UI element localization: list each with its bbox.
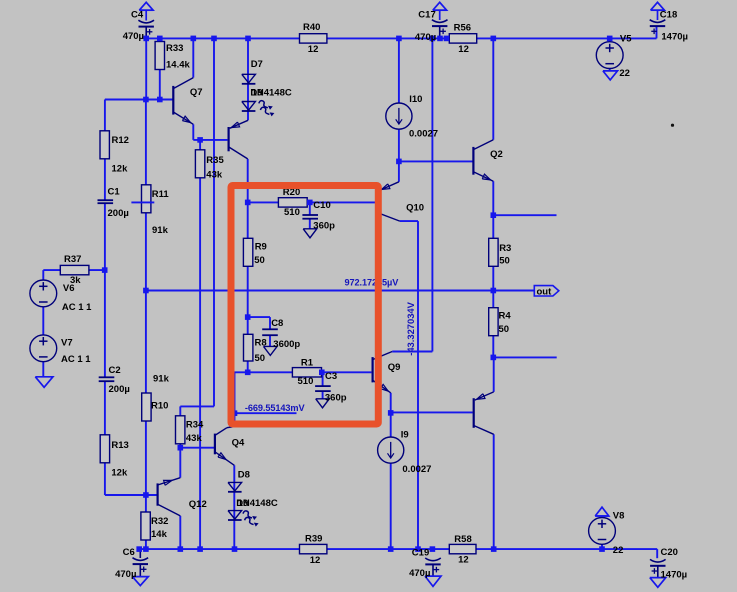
svg-text:50: 50 — [499, 256, 510, 267]
svg-text:1470µ: 1470µ — [661, 570, 688, 581]
svg-text:Q2: Q2 — [490, 149, 503, 160]
svg-text:R9: R9 — [255, 242, 267, 253]
svg-text:22: 22 — [613, 545, 624, 556]
svg-text:C2: C2 — [109, 365, 121, 376]
svg-text:D7: D7 — [251, 59, 263, 70]
svg-text:C17: C17 — [418, 10, 435, 21]
svg-text:C8: C8 — [271, 318, 283, 329]
svg-text:510: 510 — [284, 207, 300, 218]
svg-text:R10: R10 — [151, 401, 168, 412]
svg-text:12: 12 — [458, 44, 469, 55]
svg-text:I10: I10 — [409, 94, 422, 105]
svg-text:510: 510 — [298, 376, 314, 387]
svg-text:AC 1 1: AC 1 1 — [61, 354, 91, 365]
svg-text:-43.327034V: -43.327034V — [405, 301, 416, 355]
svg-text:C20: C20 — [661, 547, 678, 558]
svg-text:V5: V5 — [620, 33, 632, 44]
svg-text:Q10: Q10 — [406, 203, 424, 214]
svg-text:360p: 360p — [313, 220, 335, 231]
svg-text:12: 12 — [308, 44, 319, 55]
svg-text:50: 50 — [254, 255, 265, 266]
svg-text:I9: I9 — [401, 430, 409, 441]
svg-text:R12: R12 — [112, 135, 129, 146]
svg-text:91k: 91k — [153, 374, 170, 385]
svg-text:470µ: 470µ — [409, 568, 430, 579]
svg-text:360p: 360p — [325, 392, 347, 403]
svg-text:R40: R40 — [303, 22, 320, 33]
svg-text:-669.55143mV: -669.55143mV — [245, 403, 306, 413]
svg-text:22: 22 — [619, 68, 630, 79]
svg-text:C19: C19 — [412, 548, 429, 559]
svg-text:D9: D9 — [236, 498, 248, 509]
svg-text:out: out — [537, 286, 553, 297]
svg-text:470µ: 470µ — [415, 32, 436, 43]
svg-text:R56: R56 — [454, 23, 471, 34]
svg-text:R37: R37 — [64, 254, 81, 265]
svg-text:V7: V7 — [61, 338, 73, 349]
svg-text:R58: R58 — [454, 534, 471, 545]
svg-text:12k: 12k — [111, 468, 128, 479]
svg-text:R35: R35 — [206, 155, 224, 166]
svg-text:V6: V6 — [63, 283, 75, 294]
svg-text:R1: R1 — [301, 357, 314, 368]
svg-text:43k: 43k — [206, 170, 223, 181]
svg-text:470µ: 470µ — [115, 569, 136, 580]
svg-text:972.17245µV: 972.17245µV — [345, 277, 400, 287]
svg-text:200µ: 200µ — [109, 384, 130, 395]
svg-text:3600p: 3600p — [273, 339, 300, 350]
svg-text:C4: C4 — [131, 10, 144, 21]
svg-text:R39: R39 — [305, 533, 322, 544]
svg-text:Q7: Q7 — [190, 87, 203, 98]
svg-text:R13: R13 — [111, 440, 128, 451]
svg-text:14k: 14k — [151, 529, 168, 540]
svg-text:Q4: Q4 — [232, 438, 245, 449]
svg-text:50: 50 — [499, 324, 510, 335]
svg-text:V8: V8 — [613, 510, 625, 521]
svg-text:C3: C3 — [325, 371, 337, 382]
svg-text:14.4k: 14.4k — [166, 60, 190, 71]
svg-text:R3: R3 — [499, 243, 511, 254]
svg-text:50: 50 — [255, 353, 266, 364]
svg-text:C6: C6 — [123, 547, 135, 558]
svg-text:R32: R32 — [151, 516, 168, 527]
svg-text:R11: R11 — [152, 189, 170, 200]
svg-text:12: 12 — [310, 555, 321, 566]
svg-text:R8: R8 — [255, 337, 267, 348]
svg-text:R33: R33 — [166, 43, 183, 54]
svg-text:D9: D9 — [250, 88, 262, 99]
svg-text:C1: C1 — [108, 186, 121, 197]
svg-text:0.0027: 0.0027 — [402, 464, 431, 475]
svg-text:R34: R34 — [186, 419, 204, 430]
svg-text:C18: C18 — [660, 10, 677, 21]
svg-text:R4: R4 — [499, 311, 512, 322]
svg-text:D8: D8 — [238, 469, 250, 480]
svg-text:AC 1 1: AC 1 1 — [62, 302, 92, 313]
svg-text:43k: 43k — [186, 433, 203, 444]
svg-text:470µ: 470µ — [123, 31, 144, 42]
svg-text:C10: C10 — [313, 200, 330, 211]
svg-text:12: 12 — [458, 555, 469, 566]
svg-text:Q9: Q9 — [388, 362, 401, 373]
svg-text:200µ: 200µ — [108, 208, 129, 219]
svg-text:12k: 12k — [112, 163, 129, 174]
svg-text:91k: 91k — [152, 225, 169, 236]
svg-text:0.0027: 0.0027 — [409, 128, 438, 139]
svg-text:Q12: Q12 — [189, 499, 207, 510]
svg-text:1470µ: 1470µ — [661, 31, 688, 42]
